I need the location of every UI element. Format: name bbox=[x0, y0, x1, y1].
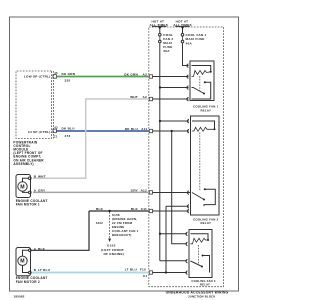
svg-text:F10: F10 bbox=[140, 268, 146, 272]
svg-text:A11: A11 bbox=[141, 127, 147, 131]
svg-text:MAXI FUSE: MAXI FUSE bbox=[186, 37, 205, 41]
svg-text:COOLING FAN 3: COOLING FAN 3 bbox=[191, 279, 215, 283]
svg-text:A3: A3 bbox=[143, 72, 147, 76]
svg-text:40A: 40A bbox=[186, 42, 193, 46]
svg-text:M: M bbox=[20, 259, 25, 265]
svg-text:HI SP (CTRL): HI SP (CTRL) bbox=[28, 130, 50, 134]
svg-text:G103: G103 bbox=[107, 243, 116, 247]
svg-text:185082: 185082 bbox=[14, 295, 25, 299]
svg-text:B: B bbox=[34, 268, 37, 272]
svg-text:BLK: BLK bbox=[38, 247, 46, 251]
svg-text:LT BLU: LT BLU bbox=[38, 268, 51, 272]
svg-text:C1: C1 bbox=[54, 135, 58, 139]
svg-text:RELAY: RELAY bbox=[200, 283, 210, 287]
svg-text:BLK: BLK bbox=[96, 207, 104, 211]
svg-text:WHT: WHT bbox=[38, 174, 46, 178]
svg-text:JUNCTION BLOCK: JUNCTION BLOCK bbox=[188, 294, 216, 298]
svg-text:45: 45 bbox=[54, 71, 58, 75]
svg-text:GRY: GRY bbox=[131, 188, 139, 192]
svg-text:M: M bbox=[20, 184, 25, 190]
svg-text:BREAKOUT): BREAKOUT) bbox=[112, 233, 132, 237]
svg-text:LT BLU: LT BLU bbox=[125, 268, 138, 272]
svg-text:335: 335 bbox=[65, 79, 71, 83]
svg-text:DK BLU: DK BLU bbox=[125, 127, 139, 131]
svg-text:DK GRN: DK GRN bbox=[62, 72, 76, 76]
svg-text:RELAY: RELAY bbox=[200, 108, 211, 112]
svg-text:FAN MOTOR 1: FAN MOTOR 1 bbox=[16, 203, 40, 207]
svg-text:FAN MOTOR 2: FAN MOTOR 2 bbox=[16, 280, 40, 284]
svg-text:GRY: GRY bbox=[38, 189, 46, 193]
svg-text:S102: S102 bbox=[96, 221, 104, 225]
svg-text:OF ENGINE): OF ENGINE) bbox=[104, 252, 125, 256]
svg-text:A2: A2 bbox=[143, 95, 147, 99]
svg-text:30A: 30A bbox=[163, 49, 170, 53]
svg-text:C1: C1 bbox=[143, 274, 147, 278]
svg-text:473: 473 bbox=[65, 134, 71, 138]
svg-text:RELAY: RELAY bbox=[200, 221, 211, 225]
svg-text:DK BLU: DK BLU bbox=[62, 127, 76, 131]
svg-text:ASSEMBLY): ASSEMBLY) bbox=[13, 162, 33, 166]
svg-text:43: 43 bbox=[54, 126, 58, 130]
svg-text:ALL TIMES: ALL TIMES bbox=[150, 23, 169, 27]
svg-text:BLK: BLK bbox=[131, 207, 139, 211]
svg-text:WHT: WHT bbox=[130, 95, 138, 99]
svg-text:A12: A12 bbox=[141, 188, 147, 192]
svg-text:ALL TIMES: ALL TIMES bbox=[173, 23, 192, 27]
svg-text:UNDERHOOD ACCESSORY WIRING: UNDERHOOD ACCESSORY WIRING bbox=[166, 290, 229, 294]
svg-text:LOW SP (CTRL): LOW SP (CTRL) bbox=[24, 75, 51, 79]
svg-text:DK GRN: DK GRN bbox=[124, 72, 138, 76]
svg-text:C11: C11 bbox=[141, 207, 147, 211]
